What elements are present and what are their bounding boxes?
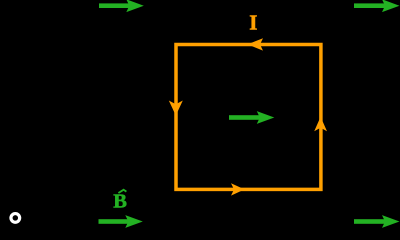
field arrow B bottom-left — [99, 215, 143, 228]
field arrow B top-right — [354, 0, 400, 12]
field arrow B top-left — [99, 0, 144, 12]
current arrowhead on left wire (pointing down) — [169, 101, 183, 116]
out-of-page marker (white ring) — [11, 214, 20, 223]
field arrow B center — [229, 111, 274, 124]
current arrowhead on bottom wire (pointing right) — [231, 183, 245, 195]
current arrowhead on right wire (pointing up) — [314, 117, 327, 132]
svg-text:I: I — [249, 11, 257, 35]
field arrow B bottom-right — [354, 215, 400, 228]
hat over B — [118, 190, 126, 193]
current arrowhead on top wire (pointing left) — [248, 38, 264, 50]
current loop (orange square wire) — [176, 45, 321, 190]
svg-text:B: B — [113, 191, 127, 213]
